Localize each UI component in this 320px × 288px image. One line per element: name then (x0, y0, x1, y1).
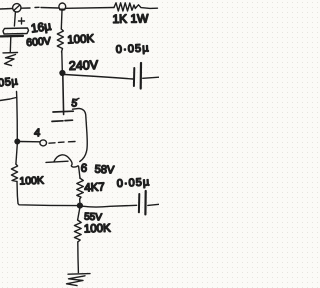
svg-text:1K 1W: 1K 1W (112, 11, 149, 26)
wire: cap to ground (9, 37, 12, 52)
wire: cathode lead down (79, 166, 80, 178)
wire: 100K down to 240V node (61, 52, 64, 71)
wire: plate lead into tube (62, 75, 65, 115)
wire: 4K7 to 55V node (79, 199, 81, 203)
resistor 1K 1W (series in B+ rail) (114, 3, 136, 11)
tube envelope (top + right side) (73, 108, 88, 161)
wire: junction down to 100K plate resistor (60, 10, 63, 29)
wire: 55V node down to 100K (78, 208, 80, 220)
svg-text:100K: 100K (84, 223, 112, 236)
capacitor 0.05µ (cathode output coupling) (138, 194, 140, 212)
terminal: junction circle at top of 100K (59, 3, 66, 10)
wire: 100K to ground (77, 242, 80, 273)
wire: input from left edge, corner down to grid node (0, 92, 17, 140)
wire: cap to right edge (148, 204, 159, 205)
svg-text:58V: 58V (94, 164, 115, 177)
tube cathode (46, 155, 78, 167)
node: 55V node (78, 203, 83, 208)
wire: grid node to grid terminal (20, 141, 40, 143)
wire: 240V node to output coupling cap (65, 75, 133, 80)
svg-text:0·05µ: 0·05µ (117, 176, 151, 190)
wire: rail right end (136, 5, 157, 9)
resistor 4K7 (cathode) (77, 178, 84, 199)
wire: lead from B+ terminal down to 16µ cap (14, 12, 15, 26)
ground (bottom) (68, 273, 90, 276)
polarity + mark (19, 18, 25, 24)
resistor 100K (plate load) (57, 29, 63, 52)
tube grid dashes (49, 142, 75, 144)
ground (under 16µ cap) (3, 52, 18, 54)
resistor 100K (bottom, to ground) (74, 220, 81, 242)
svg-text:16µ: 16µ (30, 19, 52, 36)
wire: rail between terminals (21, 6, 59, 9)
wire: cathode lead to 4K7 (79, 177, 81, 179)
svg-text:100K: 100K (19, 175, 44, 188)
svg-text:600V: 600V (26, 35, 51, 49)
wire: grid resistor down and right along bottom (17, 182, 77, 206)
wire: grid node down to 100K grid resistor (16, 144, 17, 164)
wire: cap to right edge (143, 77, 159, 78)
node: 240V plate node (60, 71, 65, 76)
capacitor 0.05µ (plate output coupling) (133, 68, 135, 86)
svg-text:05µ: 05µ (0, 75, 19, 89)
svg-text:55V: 55V (84, 212, 103, 224)
wire: B+ rail left entry (0, 8, 12, 11)
svg-text:6: 6 (80, 163, 87, 175)
terminal: B+ input circle (13, 4, 21, 12)
svg-text:0·05µ: 0·05µ (116, 42, 150, 56)
tube second bar (52, 120, 73, 121)
svg-text:100K: 100K (67, 33, 95, 46)
wire: rail to 1K resistor (66, 7, 115, 10)
capacitor C 16µ bottom plate (1, 35, 24, 38)
resistor 100K (grid leak) (11, 164, 17, 182)
tube anode bar (53, 110, 73, 113)
svg-text:240V: 240V (69, 58, 99, 73)
svg-text:4K7: 4K7 (84, 181, 105, 194)
capacitor C 16µ 600V (electrolytic, top plate box) (3, 28, 29, 34)
node: grid node (15, 139, 20, 144)
wire: 55V node right to output cap (83, 205, 137, 207)
svg-text:4: 4 (34, 127, 41, 139)
tube grid terminal circle (40, 140, 47, 146)
